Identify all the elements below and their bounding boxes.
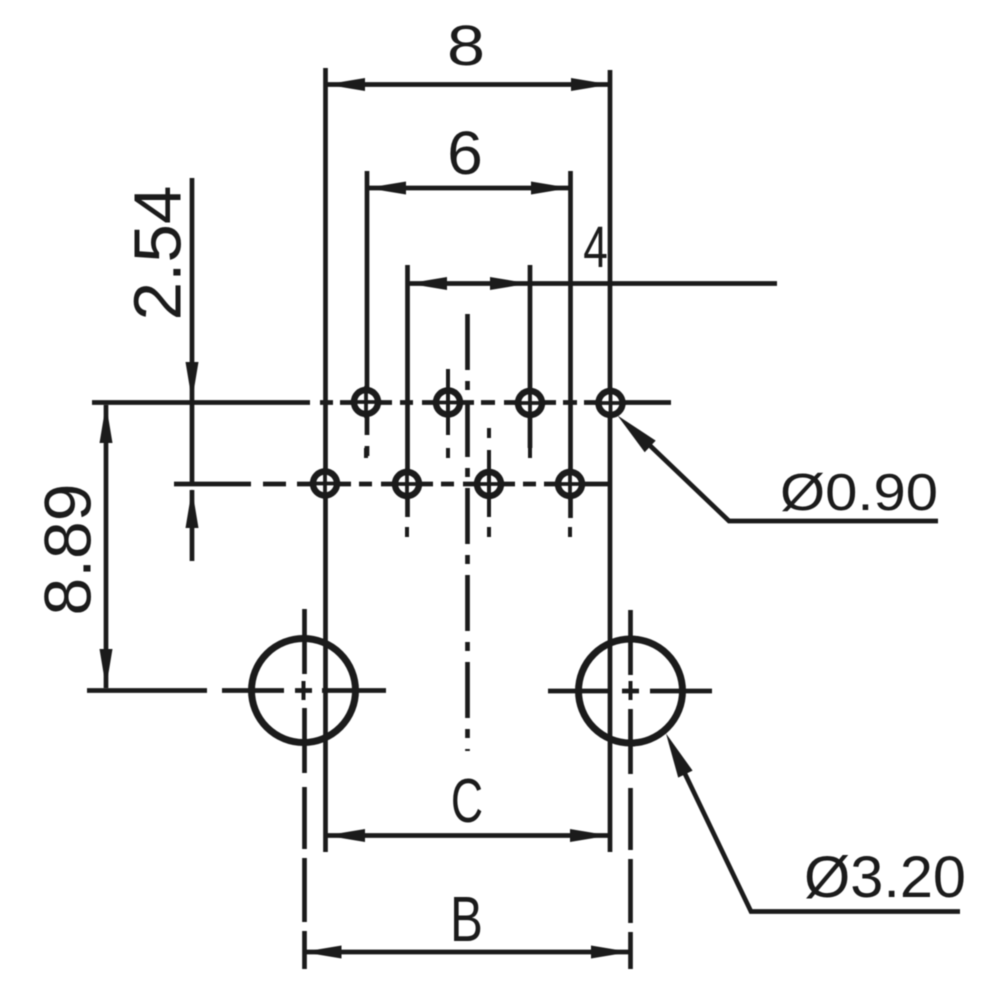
pin holes: rings — [313, 390, 623, 496]
dimension line B — [303, 950, 631, 955]
arrow leader 0.90 — [618, 416, 656, 453]
pin7 centerline — [487, 428, 491, 537]
pin hole bottom 5 — [313, 472, 337, 496]
arrow B left — [303, 946, 342, 959]
arrow 8 right — [571, 78, 610, 91]
pin hole top 2 — [436, 391, 460, 415]
right hole dashed vertical centerline — [628, 610, 633, 969]
svg-text:B: B — [450, 883, 483, 955]
hole center crosses — [304, 681, 631, 700]
svg-text:8: 8 — [447, 14, 485, 78]
dimension line 4 with long tail — [408, 281, 777, 286]
pin6 dashes — [405, 527, 409, 537]
pin hole bottom 7 — [477, 472, 501, 496]
crosshair pin 8 — [554, 468, 586, 500]
left hole dashed vertical centerline — [302, 609, 307, 969]
crosshair pin 6 — [391, 468, 423, 500]
arrow 6 right — [531, 182, 570, 195]
arrow 4 left — [408, 277, 447, 290]
extension line 8-right / pin4 column / C-right — [608, 70, 613, 852]
crosshair pin 3 — [514, 387, 546, 419]
pin3 below dash — [528, 448, 532, 458]
extension line 6-left / pin1 column — [365, 171, 370, 456]
arrow leader 3.20 — [666, 734, 693, 778]
pin hole top 1 — [354, 390, 378, 414]
dimension line C — [326, 833, 609, 838]
mounting hole left — [252, 639, 356, 743]
svg-text:2.54: 2.54 — [121, 186, 196, 321]
svg-text:Ø3.20: Ø3.20 — [804, 845, 966, 910]
arrow 2.54 up — [186, 489, 199, 528]
pin hole bottom 6 — [395, 472, 419, 496]
arrow 8 left — [326, 78, 365, 91]
right hole horizontal centerline — [548, 689, 712, 694]
top row centerline — [92, 400, 671, 405]
left hole center cross — [302, 681, 306, 700]
crosshair pin 5 — [309, 468, 341, 500]
crosshair pin 4 — [595, 387, 627, 419]
pin8 dashes — [568, 527, 572, 537]
arrow C right — [570, 829, 609, 842]
crosshair pin 7 — [473, 468, 505, 500]
svg-text:Ø0.90: Ø0.90 — [780, 464, 938, 522]
leader line for 0.90 — [640, 436, 938, 521]
extension line 4-right / pin3 column — [528, 265, 533, 448]
pin2 centerline — [446, 369, 450, 458]
svg-text:C: C — [451, 767, 483, 836]
pin1 below dash — [364, 448, 368, 458]
right hole center cross — [629, 681, 633, 700]
arrow 2.54 down — [186, 362, 199, 401]
dimension line 2.54 lower — [190, 490, 195, 561]
pin crosshairs — [309, 386, 627, 500]
svg-text:6: 6 — [447, 119, 483, 188]
pin hole bottom 8 — [558, 472, 582, 496]
extension line 6-right / pin8 column — [568, 171, 573, 518]
bottom row centerline — [174, 482, 612, 487]
crosshair pin 2 — [432, 387, 464, 419]
dimension line 8 — [326, 82, 610, 87]
central dash-dot axis — [465, 314, 470, 751]
leader line for 3.20 — [676, 755, 960, 912]
extension line 8-left / pin5 column / C-left — [323, 68, 328, 852]
crosshair pin 1 — [350, 386, 382, 418]
mounting hole right — [579, 639, 683, 743]
extension line 4-left / pin6 column — [405, 265, 410, 517]
dimension line 6 — [367, 186, 570, 191]
arrow B right — [591, 946, 630, 959]
left hole horizontal centerline — [222, 688, 386, 693]
dimension line 8.89 — [104, 405, 109, 688]
arrow 8.89 up — [100, 404, 113, 443]
8.89 extension line bottom — [87, 688, 207, 693]
pin hole top 3 — [518, 391, 542, 415]
arrow 4 right — [490, 277, 529, 290]
pin hole top 4 — [599, 391, 623, 415]
short centerlines of pins (stubs between rows) — [366, 369, 570, 537]
arrow 6 left — [367, 182, 406, 195]
svg-text:8.89: 8.89 — [31, 484, 105, 616]
svg-text:4: 4 — [583, 215, 608, 280]
arrow 8.89 down — [100, 649, 113, 688]
arrowheads — [100, 78, 693, 959]
arrow C left — [326, 829, 365, 842]
dimension line 2.54 upper — [190, 178, 195, 483]
